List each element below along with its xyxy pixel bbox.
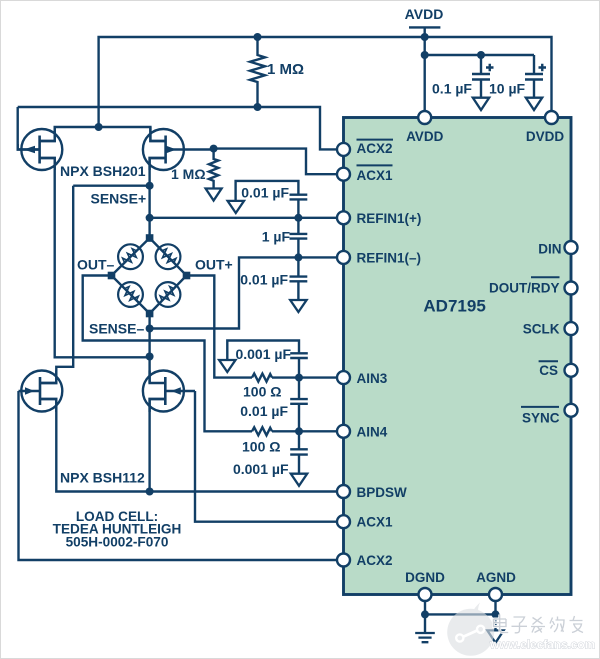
resistor R3 100 ohm AIN3 <box>243 374 281 400</box>
resistor R2 1 Mohm pulldown <box>171 149 218 188</box>
pin DVDD top <box>545 111 558 124</box>
ground AGND under C5 <box>290 300 306 312</box>
wire Q1 drain down and across to bridge bottom net <box>40 158 150 357</box>
bridge element RG4 bottom-right <box>156 282 181 307</box>
node cap C1 top <box>477 51 485 59</box>
node bridge bottom <box>146 310 154 318</box>
wire SENSE+ <box>73 184 149 186</box>
svg-text:1 MΩ: 1 MΩ <box>171 166 206 182</box>
wire SENSE- to REFIN1(-) <box>150 257 337 328</box>
transistor Q2 PMOS NPX BSH201 right <box>143 127 214 170</box>
bridge element RG2 top-right <box>156 244 181 269</box>
ground AGND under R2 <box>206 189 222 201</box>
svg-text:DOUT/RDY: DOUT/RDY <box>489 281 560 296</box>
svg-text:AIN3: AIN3 <box>357 371 388 386</box>
pin AVDD top <box>418 111 431 124</box>
wire DGND to ground <box>424 602 426 634</box>
IC U1 AD7195 body <box>344 118 572 595</box>
transistor Q3 NMOS NPX BSH112 left <box>19 371 63 413</box>
svg-text:DVDD: DVDD <box>526 129 565 144</box>
wire R3 to AIN3 pin <box>272 376 337 378</box>
node REFIN1(+) branch <box>146 214 154 222</box>
pin SYNCbar <box>565 404 578 417</box>
wire Q4 gate to ACX1 pin <box>195 391 337 522</box>
node decoupling rail <box>421 51 429 59</box>
svg-text:0.01 µF: 0.01 µF <box>241 184 289 200</box>
svg-text:0.001 µF: 0.001 µF <box>233 461 289 477</box>
svg-text:NPX BSH201: NPX BSH201 <box>60 163 146 179</box>
node BPDSW Q4 source <box>146 488 154 496</box>
pin DIN <box>565 241 578 254</box>
node W1 junction <box>146 353 154 361</box>
pin AGND bottom <box>489 588 502 601</box>
svg-text:BPDSW: BPDSW <box>357 485 408 500</box>
capacitor C5 0.01uF on REFIN1(-) <box>240 257 307 299</box>
transistor Q1 PMOS NPX BSH201 left <box>18 107 63 170</box>
svg-text:1 MΩ: 1 MΩ <box>267 61 304 78</box>
pin DOUT/RDYbar <box>565 282 578 295</box>
pin BPDSW <box>337 485 350 498</box>
node DGND <box>421 610 429 618</box>
svg-text:AD7195: AD7195 <box>423 296 485 315</box>
svg-text:DGND: DGND <box>405 570 445 585</box>
wire REFIN1(+) <box>150 217 337 219</box>
pin DGND bottom <box>419 588 432 601</box>
svg-text:100 Ω: 100 Ω <box>242 438 280 454</box>
node rail1-AVDD <box>421 33 429 41</box>
wire AGND to ground <box>494 602 496 631</box>
svg-text:0.1 µF: 0.1 µF <box>432 80 472 96</box>
label load cell <box>53 509 182 550</box>
wire DGND-AGND link <box>425 613 496 615</box>
wire PMOS source link <box>40 127 166 141</box>
svg-text:AVDD: AVDD <box>405 6 444 22</box>
node OUT- <box>108 272 116 280</box>
svg-text:ACX2: ACX2 <box>357 553 393 568</box>
svg-text:0.001 µF: 0.001 µF <box>235 346 291 362</box>
resistor R1 1 Mohm <box>250 37 304 107</box>
node AIN4 <box>295 427 303 435</box>
svg-text:ACX1: ACX1 <box>357 515 394 530</box>
ground AGND under C8 <box>291 474 307 486</box>
svg-text:www.elecfans.com: www.elecfans.com <box>489 638 595 652</box>
node rail2-R1 <box>254 103 262 111</box>
wire Q2 drain down to bridge top <box>150 158 166 238</box>
capacitor C1 0.1uF <box>432 55 493 97</box>
resistor R4 100 ohm AIN4 <box>242 427 280 454</box>
pin AIN3 <box>337 371 350 384</box>
ground earth DGND <box>415 633 435 642</box>
svg-text:NPX BSH112: NPX BSH112 <box>60 470 145 486</box>
capacitor C4 1uF reference <box>262 218 308 258</box>
svg-text:0.01 µF: 0.01 µF <box>240 271 288 287</box>
node OUT+ <box>183 272 191 280</box>
wire Q4 source down <box>150 399 166 492</box>
svg-text:CS: CS <box>539 363 558 378</box>
node REFIN1(-) cap <box>294 253 302 261</box>
svg-text:OUT–: OUT– <box>77 257 115 273</box>
wire decoupling rail <box>425 54 534 56</box>
node Q2 drain R2 <box>210 145 218 153</box>
wire gate rail to ACX2bar pin <box>18 107 337 149</box>
label pin ACX2bar <box>357 140 394 156</box>
svg-text:AVDD: AVDD <box>406 129 444 144</box>
svg-text:SYNC: SYNC <box>522 410 560 425</box>
wire AVDD top rail <box>99 37 552 127</box>
pin CSbar <box>565 364 578 377</box>
bridge element RG3 bottom-left <box>118 282 143 307</box>
transistor Q4 NMOS NPX BSH112 right <box>143 371 195 413</box>
capacitor C7 0.01uF AIN3-AIN4 <box>240 378 308 432</box>
wire OUT- to AIN4 line <box>83 276 252 432</box>
node REFIN1(+) cap <box>294 214 302 222</box>
pin AIN4 <box>337 425 350 438</box>
svg-text:SENSE–: SENSE– <box>89 321 144 337</box>
ground AGND under C6 <box>219 360 235 372</box>
capacitor C3 0.01uF on REFIN1(+) <box>236 181 308 218</box>
svg-text:SENSE+: SENSE+ <box>91 191 147 207</box>
svg-text:SCLK: SCLK <box>523 321 560 336</box>
wire R4 to AIN4 pin <box>272 430 337 432</box>
svg-text:1 µF: 1 µF <box>262 229 291 245</box>
node SENSE+ <box>146 182 154 190</box>
bridge element RG1 top-left <box>118 244 143 269</box>
ground AGND triangle <box>487 630 503 642</box>
node rail1-resistor <box>254 33 262 41</box>
capacitor C2 10uF <box>489 55 546 97</box>
ground AGND under C1 <box>473 98 489 110</box>
svg-text:100 Ω: 100 Ω <box>243 384 281 400</box>
ground AGND under C3 <box>228 201 244 213</box>
svg-text:0.01 µF: 0.01 µF <box>240 403 288 419</box>
watermark logo <box>447 603 494 656</box>
capacitor C8 0.001uF on AIN4 <box>233 431 308 477</box>
node AVDD to PMOS sources <box>95 123 103 131</box>
pin SCLK <box>565 322 578 335</box>
pin REFIN1+ <box>337 211 350 224</box>
pin ACX1 <box>337 515 350 528</box>
ground AGND under C2 <box>526 98 542 110</box>
svg-text:REFIN1(+): REFIN1(+) <box>357 211 422 226</box>
pin ACX2bar <box>337 143 350 156</box>
svg-text:ACX1: ACX1 <box>357 168 394 183</box>
svg-text:AIN4: AIN4 <box>357 425 388 440</box>
wire OUT+ to AIN3 line <box>187 276 253 378</box>
power rail AVDD symbol <box>405 6 444 111</box>
svg-text:REFIN1(–): REFIN1(–) <box>357 251 422 266</box>
svg-text:OUT+: OUT+ <box>195 257 233 273</box>
svg-text:DIN: DIN <box>538 241 561 256</box>
pin ACX2 <box>337 554 350 567</box>
label pin ACX1bar <box>357 165 394 182</box>
svg-text:505H-0002-F070: 505H-0002-F070 <box>66 535 169 550</box>
load cell bridge diamond <box>112 238 187 314</box>
wire Q3 source to BPDSW pin <box>40 399 337 492</box>
label pin SYNCbar <box>521 407 560 425</box>
svg-text:10 µF: 10 µF <box>489 80 526 96</box>
node AIN3 <box>295 374 303 382</box>
capacitor C6 0.001uF on AIN3 <box>227 341 307 378</box>
node AGND <box>492 610 500 618</box>
pin REFIN1- <box>337 251 350 264</box>
svg-text:AGND: AGND <box>476 570 516 585</box>
wire bridge bottom to Q4 drain <box>148 314 150 384</box>
pin ACX1bar <box>337 168 350 181</box>
node SENSE- <box>146 325 154 333</box>
wire Q2 drain to ACX1bar pin <box>214 149 337 175</box>
label pin DOUT/RDYbar <box>489 277 560 295</box>
node bridge top <box>146 234 154 242</box>
wire Q3 gate to ACX2 pin <box>19 391 337 560</box>
svg-text:ACX2: ACX2 <box>357 141 393 156</box>
wire SENSE+ to Q3 drain <box>40 186 73 383</box>
label pin CSbar <box>539 361 558 378</box>
